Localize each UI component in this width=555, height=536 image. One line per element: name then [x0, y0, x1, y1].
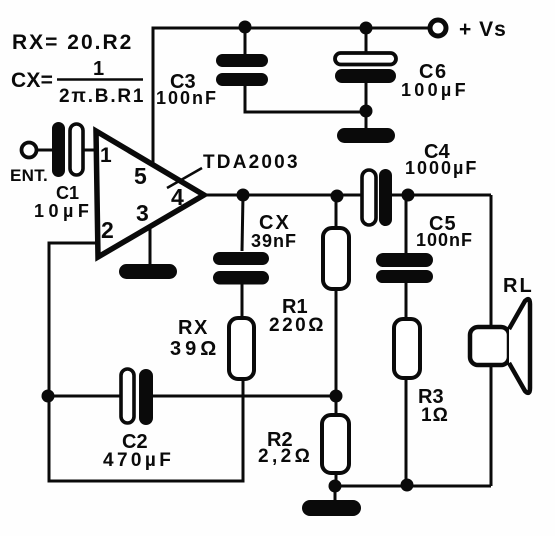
svg-text:1: 1 [100, 144, 112, 167]
svg-text:100nF: 100nF [156, 88, 218, 108]
node output R1 [331, 190, 344, 203]
node junction top C3 [239, 21, 252, 34]
wire R2 bottom lead [335, 472, 338, 486]
svg-text:1Ω: 1Ω [421, 405, 449, 426]
wire pin3 to ground [149, 225, 152, 266]
capacitor C1 [34, 122, 93, 221]
svg-text:5: 5 [134, 163, 147, 189]
node output C5 [402, 189, 415, 202]
wire CX top lead [242, 195, 243, 251]
node R2 ground [329, 480, 342, 493]
capacitor CX [213, 212, 297, 285]
svg-text:1000µF: 1000µF [405, 158, 478, 178]
svg-text:RL: RL [503, 275, 534, 297]
node junction top C6 [360, 22, 373, 35]
terminal +Vs [430, 20, 446, 36]
svg-text:1: 1 [93, 58, 104, 80]
wire top rail [153, 28, 430, 163]
svg-text:2: 2 [101, 217, 114, 243]
svg-text:C1: C1 [56, 183, 79, 203]
node R3 ground [401, 479, 414, 492]
svg-text:4: 4 [171, 184, 184, 210]
svg-text:RX= 20.R2: RX= 20.R2 [12, 31, 133, 54]
node pin2 C2 [42, 390, 55, 403]
svg-text:2π.B.R1: 2π.B.R1 [59, 86, 145, 107]
svg-text:ENT.: ENT. [10, 166, 48, 185]
svg-text:3: 3 [136, 200, 149, 226]
wire ENT to C1 [36, 149, 53, 152]
ground under R2 [302, 500, 361, 516]
op-amp U1 TDA2003 [96, 131, 300, 257]
resistor R1 [269, 228, 349, 336]
wire ground rail bottom [336, 485, 491, 488]
resistor R2 [258, 415, 349, 473]
wire RL vertical [490, 195, 493, 486]
wire C6 top lead [365, 28, 368, 53]
capacitor C6 [335, 53, 469, 100]
wire C5 to R3 [405, 283, 408, 319]
wire bottom loop rectangle [49, 380, 243, 481]
wire output rail [204, 194, 363, 197]
wire C4 right to RL [392, 194, 491, 197]
svg-text:TDA2003: TDA2003 [203, 152, 300, 173]
svg-text:100µF: 100µF [401, 80, 469, 100]
svg-text:+ Vs: + Vs [459, 18, 507, 41]
svg-text:RX: RX [178, 317, 209, 339]
node junction C6 bottom [360, 105, 373, 118]
resistor R3 [394, 319, 449, 426]
svg-text:39Ω: 39Ω [170, 338, 220, 360]
wire C1 to pin1 [83, 149, 96, 152]
capacitor C5 [376, 213, 473, 283]
svg-text:100nF: 100nF [416, 230, 473, 250]
terminal ENT. [22, 143, 37, 158]
wire CX to RX [241, 284, 244, 318]
resistor RX [170, 317, 254, 379]
wire C2 right to R2 top junction [152, 395, 336, 398]
wire R3 to ground rail [405, 378, 408, 485]
node output CX [237, 189, 250, 202]
node R1 R2 [330, 390, 343, 403]
wire C2 left [49, 395, 121, 398]
svg-text:CX=: CX= [11, 69, 53, 92]
wire pin2 feedback left [49, 243, 96, 396]
wire R2 top lead [335, 396, 338, 415]
wire junction to C5 [405, 195, 408, 254]
svg-text:470µF: 470µF [103, 450, 174, 471]
wire C3 bottom to C6 bottom [245, 85, 366, 112]
svg-text:39nF: 39nF [251, 231, 297, 251]
ground under C6 [337, 128, 395, 143]
capacitor C3 [156, 54, 268, 108]
wire C6 bottom lead [365, 83, 368, 131]
ground under pin3 [119, 264, 177, 279]
svg-text:2,2Ω: 2,2Ω [258, 446, 313, 467]
wire R1 top lead [335, 196, 338, 228]
svg-text:10µF: 10µF [34, 201, 93, 221]
wire R1 bottom lead [335, 289, 338, 396]
wire ground stub under R2 [334, 486, 337, 502]
wire C3 top lead [244, 28, 247, 54]
capacitor C2 [103, 369, 174, 471]
svg-text:220Ω: 220Ω [269, 315, 326, 336]
capacitor C4 [362, 141, 478, 226]
formula CX [11, 58, 145, 107]
speaker RL [470, 275, 534, 393]
